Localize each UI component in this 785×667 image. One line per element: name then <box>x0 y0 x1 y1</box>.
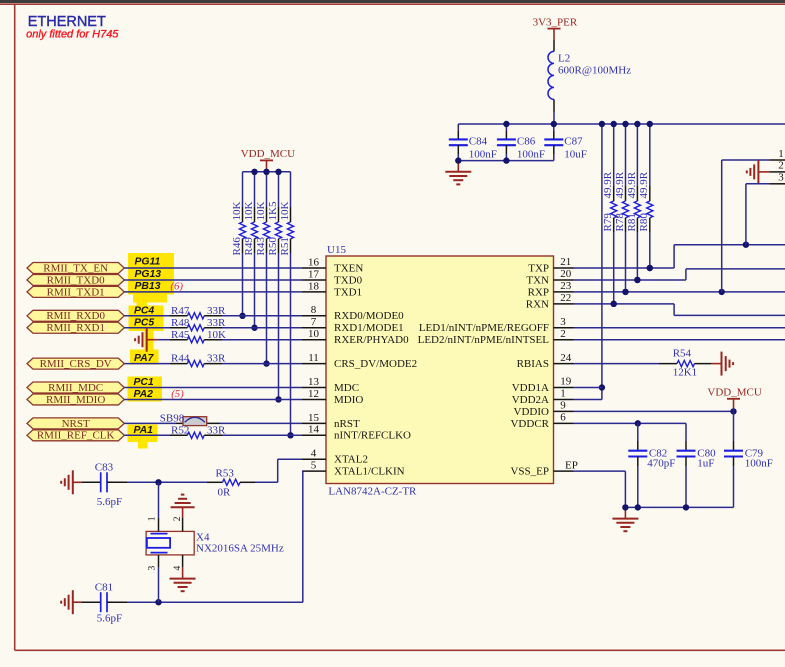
svg-text:2: 2 <box>173 516 183 521</box>
svg-text:5.6pF: 5.6pF <box>97 496 122 508</box>
svg-text:(5): (5) <box>171 388 184 400</box>
svg-text:0R: 0R <box>218 486 232 498</box>
svg-text:R78: R78 <box>614 213 626 232</box>
svg-text:XTAL1/CLKIN: XTAL1/CLKIN <box>334 466 405 478</box>
svg-text:NRST: NRST <box>62 418 90 430</box>
svg-text:C86: C86 <box>517 135 536 147</box>
svg-text:9: 9 <box>560 400 566 412</box>
svg-text:CRS_DV/MODE2: CRS_DV/MODE2 <box>334 358 417 370</box>
svg-text:6: 6 <box>560 412 566 424</box>
svg-text:470pF: 470pF <box>647 458 675 470</box>
svg-text:VDD_MCU: VDD_MCU <box>707 386 761 398</box>
svg-text:RMII_TX_EN: RMII_TX_EN <box>43 262 108 274</box>
svg-text:15: 15 <box>308 412 320 424</box>
svg-text:100nF: 100nF <box>745 458 773 470</box>
svg-text:TXEN: TXEN <box>334 262 363 274</box>
svg-text:LAN8742A-CZ-TR: LAN8742A-CZ-TR <box>328 486 417 498</box>
svg-text:VDDIO: VDDIO <box>514 406 549 418</box>
svg-text:R52: R52 <box>171 424 189 436</box>
svg-text:nRST: nRST <box>334 418 360 430</box>
svg-text:only fitted for H745: only fitted for H745 <box>26 28 119 40</box>
svg-text:PC4: PC4 <box>134 305 154 316</box>
svg-text:R43: R43 <box>255 237 267 256</box>
svg-text:XTAL2: XTAL2 <box>334 454 368 466</box>
svg-text:24: 24 <box>560 352 572 364</box>
svg-text:R80: R80 <box>638 213 650 232</box>
svg-text:100nF: 100nF <box>517 149 545 161</box>
svg-text:4: 4 <box>173 566 183 571</box>
svg-text:3: 3 <box>778 172 784 184</box>
svg-text:R53: R53 <box>216 468 235 480</box>
svg-text:100nF: 100nF <box>469 149 497 161</box>
svg-text:C84: C84 <box>469 135 488 147</box>
svg-text:2: 2 <box>778 160 784 172</box>
svg-text:MDIO: MDIO <box>334 394 363 406</box>
svg-text:33R: 33R <box>207 424 226 436</box>
svg-text:MDC: MDC <box>334 382 359 394</box>
svg-text:1: 1 <box>560 388 566 400</box>
svg-text:33R: 33R <box>207 353 226 365</box>
svg-text:20: 20 <box>560 268 572 280</box>
svg-text:49.9R: 49.9R <box>626 171 638 198</box>
svg-text:VDD2A: VDD2A <box>512 394 549 406</box>
svg-text:RMII_RXD1: RMII_RXD1 <box>46 322 105 334</box>
svg-text:33R: 33R <box>207 305 226 317</box>
svg-text:RMII_RXD0: RMII_RXD0 <box>46 310 105 322</box>
svg-text:10uF: 10uF <box>564 149 587 161</box>
svg-text:RXN: RXN <box>526 298 549 310</box>
svg-text:PB13: PB13 <box>135 281 161 292</box>
svg-text:RMII_CRS_DV: RMII_CRS_DV <box>40 358 112 370</box>
svg-text:11: 11 <box>308 352 319 364</box>
svg-text:3V3_PER: 3V3_PER <box>533 16 578 28</box>
svg-text:R47: R47 <box>171 305 190 317</box>
svg-text:3: 3 <box>147 566 157 571</box>
svg-text:NX2016SA 25MHz: NX2016SA 25MHz <box>196 543 284 555</box>
svg-text:19: 19 <box>560 376 572 388</box>
svg-text:600R@100MHz: 600R@100MHz <box>558 64 631 76</box>
svg-text:12: 12 <box>308 388 319 400</box>
svg-text:VDD1A: VDD1A <box>512 382 549 394</box>
svg-text:VDDCR: VDDCR <box>510 418 549 430</box>
svg-text:8: 8 <box>311 304 317 316</box>
svg-text:R44: R44 <box>171 353 190 365</box>
svg-text:RMII_TXD0: RMII_TXD0 <box>47 274 106 286</box>
svg-text:VSS_EP: VSS_EP <box>510 466 549 478</box>
svg-text:R51: R51 <box>279 237 291 255</box>
svg-text:EP: EP <box>565 460 578 472</box>
svg-text:14: 14 <box>308 424 320 436</box>
svg-text:PA1: PA1 <box>134 425 154 436</box>
svg-text:1: 1 <box>778 148 784 160</box>
svg-text:49.9R: 49.9R <box>614 171 626 198</box>
svg-text:PG11: PG11 <box>135 257 161 268</box>
svg-text:C83: C83 <box>95 462 114 474</box>
svg-text:L2: L2 <box>558 53 570 65</box>
svg-text:5: 5 <box>311 460 317 472</box>
svg-text:RMII_TXD1: RMII_TXD1 <box>47 286 105 298</box>
svg-text:LED2/nINT/nPME/nINTSEL: LED2/nINT/nPME/nINTSEL <box>418 334 550 346</box>
svg-text:10K: 10K <box>279 202 291 221</box>
svg-text:1: 1 <box>147 516 157 521</box>
svg-text:33R: 33R <box>207 317 226 329</box>
svg-text:10K: 10K <box>255 202 267 221</box>
svg-text:10K: 10K <box>231 202 243 221</box>
svg-text:18: 18 <box>308 280 320 292</box>
svg-text:3: 3 <box>560 316 566 328</box>
svg-text:12K1: 12K1 <box>673 367 697 379</box>
svg-text:R79: R79 <box>602 213 614 232</box>
svg-text:TXD0: TXD0 <box>334 274 363 286</box>
svg-text:10K: 10K <box>207 329 226 341</box>
svg-text:R54: R54 <box>673 347 692 359</box>
svg-text:RXER/PHYAD0: RXER/PHYAD0 <box>334 334 409 346</box>
svg-text:2: 2 <box>560 328 566 340</box>
svg-text:PC1: PC1 <box>134 377 154 388</box>
svg-text:R50: R50 <box>267 237 279 256</box>
svg-text:TXN: TXN <box>526 274 549 286</box>
svg-text:PG13: PG13 <box>135 269 162 280</box>
svg-text:23: 23 <box>560 280 572 292</box>
svg-text:nINT/REFCLKO: nINT/REFCLKO <box>334 430 411 442</box>
svg-text:PA2: PA2 <box>134 389 154 400</box>
svg-text:R81: R81 <box>626 213 638 231</box>
svg-text:RBIAS: RBIAS <box>517 358 549 370</box>
svg-text:49.9R: 49.9R <box>602 171 614 198</box>
svg-text:RMII_MDC: RMII_MDC <box>48 382 103 394</box>
svg-text:RXP: RXP <box>528 286 549 298</box>
svg-text:TXD1: TXD1 <box>334 286 362 298</box>
svg-text:49.9R: 49.9R <box>638 171 650 198</box>
svg-text:5.6pF: 5.6pF <box>97 613 122 625</box>
svg-text:1uF: 1uF <box>697 458 714 470</box>
svg-text:SB98: SB98 <box>160 412 185 424</box>
svg-text:C87: C87 <box>564 135 583 147</box>
svg-text:X4: X4 <box>196 531 210 543</box>
svg-text:1K5: 1K5 <box>267 201 279 220</box>
svg-text:RXD0/MODE0: RXD0/MODE0 <box>334 310 404 322</box>
svg-text:10K: 10K <box>243 202 255 221</box>
svg-text:LED1/nINT/nPME/REGOFF: LED1/nINT/nPME/REGOFF <box>419 322 549 334</box>
svg-text:4: 4 <box>311 448 317 460</box>
svg-text:10: 10 <box>308 328 320 340</box>
svg-text:VDD_MCU: VDD_MCU <box>241 148 295 160</box>
svg-text:22: 22 <box>560 292 571 304</box>
svg-text:RMII_MDIO: RMII_MDIO <box>46 394 105 406</box>
svg-text:RXD1/MODE1: RXD1/MODE1 <box>334 322 404 334</box>
svg-text:17: 17 <box>308 268 320 280</box>
svg-text:U15: U15 <box>327 244 346 256</box>
svg-text:PA7: PA7 <box>134 353 155 364</box>
svg-text:16: 16 <box>308 256 320 268</box>
svg-text:TXP: TXP <box>528 262 549 274</box>
svg-text:PC5: PC5 <box>134 317 154 328</box>
svg-text:R45: R45 <box>171 329 190 341</box>
svg-text:(6): (6) <box>170 281 183 293</box>
svg-text:RMII_REF_CLK: RMII_REF_CLK <box>37 430 115 442</box>
svg-text:R49: R49 <box>243 237 255 256</box>
svg-text:21: 21 <box>560 256 571 268</box>
svg-text:7: 7 <box>311 316 317 328</box>
svg-text:13: 13 <box>308 376 320 388</box>
svg-text:R46: R46 <box>231 237 243 256</box>
svg-text:R48: R48 <box>171 317 190 329</box>
svg-text:C81: C81 <box>95 582 113 594</box>
